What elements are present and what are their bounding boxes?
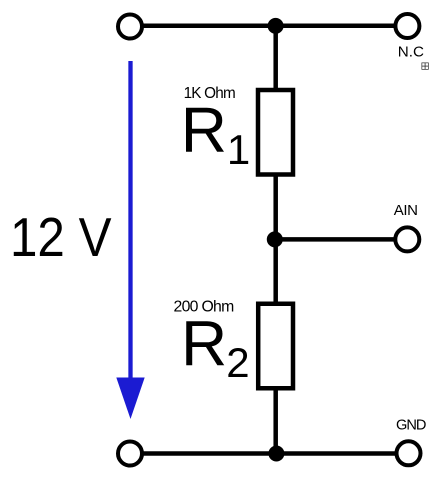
junction dot bottom node GND [268,446,284,462]
resistor R1 body [258,90,293,175]
svg-text:AIN: AIN [394,202,418,219]
junction dot top node [268,18,284,34]
svg-text:GND: GND [396,418,426,434]
terminal circle GND [397,441,421,465]
wire middle horizontal (AIN net) [276,237,407,242]
voltage source arrow 12V [116,61,144,419]
svg-text:N.C: N.C [398,43,424,60]
wire bottom horizontal (GND net) [130,451,409,456]
svg-text:12 V: 12 V [10,206,112,268]
wire top horizontal [130,24,407,29]
terminal circle AIN [395,227,419,251]
wire vertical main [273,26,278,454]
icon grid marker [422,63,429,70]
terminal circle top-left [118,15,142,39]
resistor R2 body [258,304,293,389]
terminal circle N.C [395,14,419,38]
terminal circle bottom-left [118,442,142,466]
junction dot middle node AIN [267,231,283,247]
